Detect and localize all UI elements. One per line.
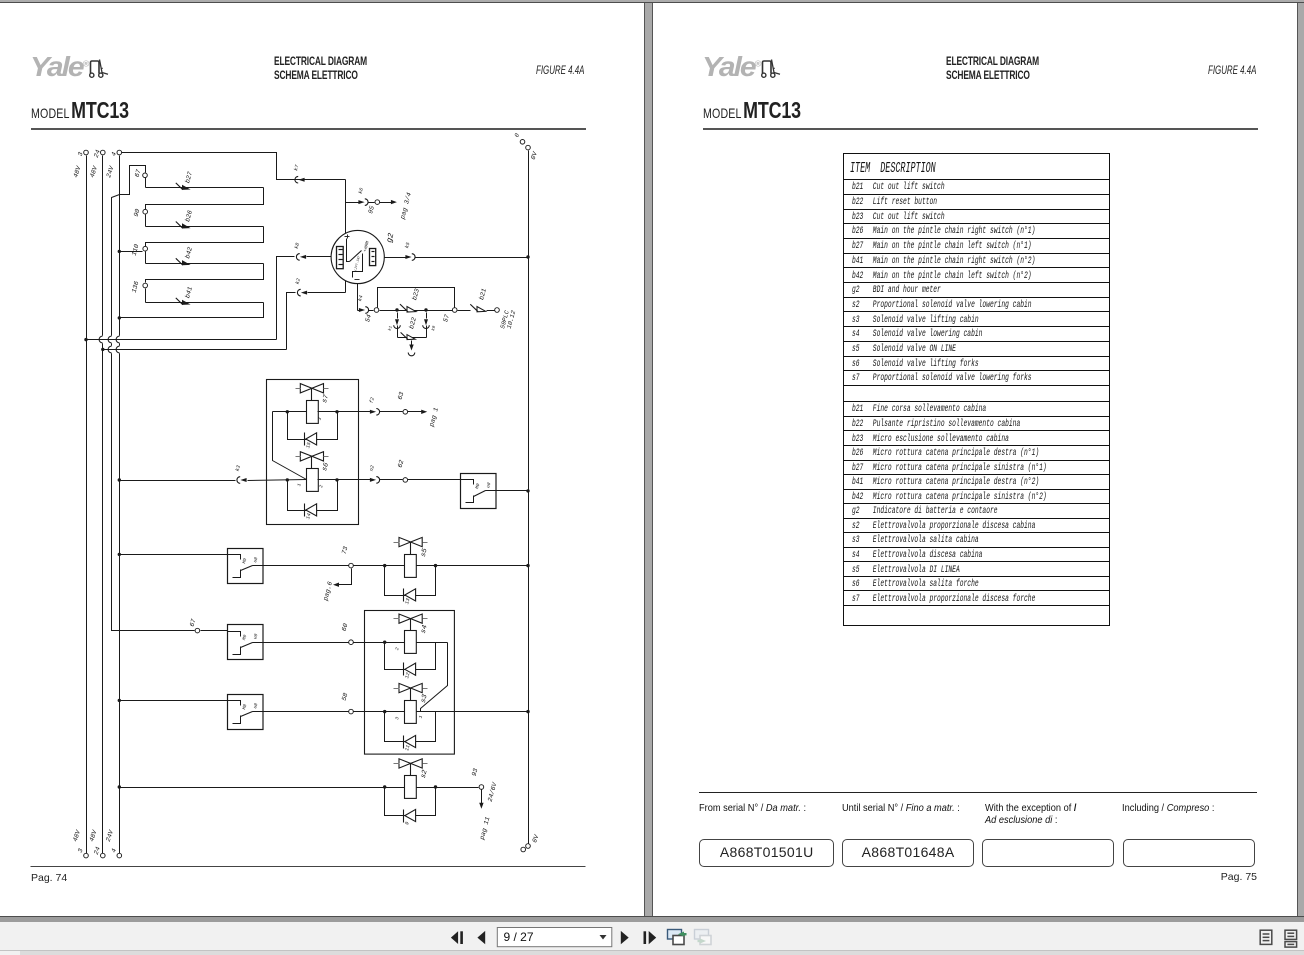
svg-text:9 / 27: 9 / 27 <box>504 930 534 944</box>
